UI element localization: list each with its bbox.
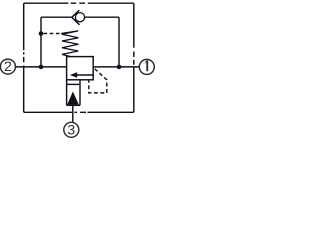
seat chamber bottom edge [67,104,80,106]
enclosure boundary right edge (chain line) [133,3,135,112]
port 1 circle [139,59,154,74]
svg-text:3: 3 [67,122,75,138]
enclosure boundary top edge (chain line) [24,2,134,4]
seat chamber top line [67,83,80,85]
flow arrow line inside valve [77,74,93,76]
wire: valve to port 1 line [93,66,139,68]
node junction dot pilot tap on check branch [39,31,44,36]
pilot line (dashed) from tap to spring [44,33,62,35]
spring [61,31,78,57]
node junction dot right (port1 line / check branch) [117,65,122,70]
node junction dot left (port2 line / check branch) [39,65,44,70]
wire: port 2 line to valve [15,66,66,68]
enclosure boundary left edge (chain line) [23,3,25,112]
seat poppet triangle (filled) [67,92,79,105]
wire: check valve branch right vertical [118,17,120,67]
wire: check valve branch left vertical [40,17,42,67]
wire: check valve branch top right horizontal [85,16,119,18]
seat chamber right edge [79,80,81,106]
check valve CV ball [75,13,84,22]
svg-text:2: 2 [4,58,12,74]
check valve CV seat arms [72,10,80,25]
pilot line (dashed) from port1 side around to spool bottom [89,68,107,93]
port 3 circle [64,122,79,137]
wire: port 3 vertical [72,105,74,122]
flow arrowhead (points left) [70,72,77,77]
seat chamber left edge [66,80,68,106]
enclosure boundary bottom edge (chain line) [24,111,134,113]
port 1 label [145,61,149,72]
valve body square [67,57,94,80]
port 2 circle [0,59,15,74]
wire: check valve branch top left horizontal [41,16,72,18]
